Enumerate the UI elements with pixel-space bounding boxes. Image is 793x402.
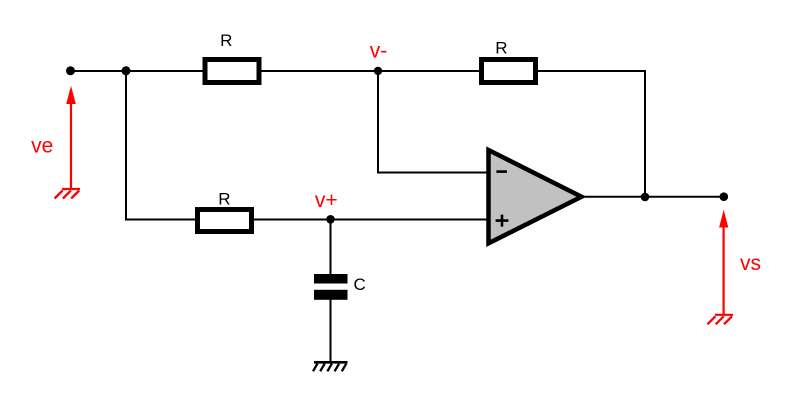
svg-text:R: R xyxy=(220,31,232,50)
svg-text:vs: vs xyxy=(740,252,761,275)
svg-text:C: C xyxy=(354,275,366,294)
svg-text:ve: ve xyxy=(31,135,53,158)
svg-text:v+: v+ xyxy=(315,189,338,212)
svg-text:R: R xyxy=(218,189,230,208)
svg-text:R: R xyxy=(495,39,507,58)
svg-text:v-: v- xyxy=(370,40,388,63)
